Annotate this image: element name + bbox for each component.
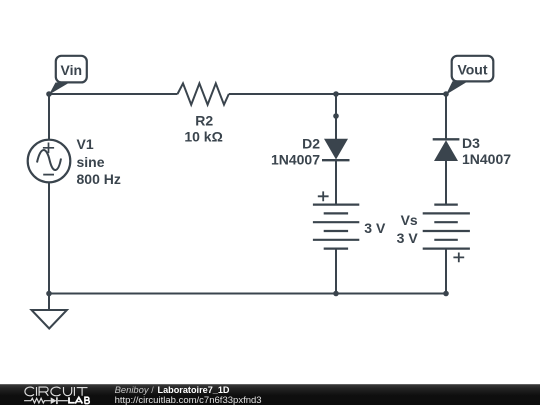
battery V2 long plate 3	[313, 221, 359, 223]
node Vin callout box	[56, 56, 87, 83]
battery Vs positive long plate 6	[423, 248, 470, 250]
wire battery V2 negative plate to ground rail	[335, 249, 337, 294]
svg-text:3 V: 3 V	[397, 230, 419, 246]
voltage source V1 minus polarity mark	[43, 174, 54, 176]
battery Vs plus polarity mark	[453, 253, 464, 263]
svg-text:Vout: Vout	[457, 62, 487, 78]
svg-text:Vin: Vin	[61, 62, 83, 78]
svg-text:R2: R2	[195, 112, 213, 128]
battery V2 plus polarity mark	[318, 191, 329, 201]
svg-text:D3: D3	[462, 135, 480, 151]
svg-text:1N4007: 1N4007	[271, 151, 320, 167]
junction dot battery V2 to rail	[333, 291, 339, 297]
svg-text:Vs: Vs	[401, 212, 418, 228]
battery Vs long plate 4	[423, 230, 470, 232]
node Vout callout box	[452, 56, 494, 82]
wire top node down to D2 junction and anode	[335, 94, 337, 140]
voltage source V1 sine symbol	[37, 150, 61, 170]
battery Vs short plate 5	[434, 239, 458, 241]
battery Vs short plate 3	[434, 221, 458, 223]
wire V1 negative terminal down to ground node	[48, 182, 50, 293]
wire Vin node down to V1 positive terminal	[48, 94, 50, 140]
svg-text:V1: V1	[77, 136, 94, 152]
svg-text:D2: D2	[302, 135, 320, 151]
logo resistor squiggle	[24, 398, 51, 403]
battery V2 positive long plate 1	[313, 204, 359, 206]
wire bottom ground rail	[49, 293, 446, 295]
footer bar	[0, 384, 540, 405]
svg-text:http://circuitlab.com/c7n6f33p: http://circuitlab.com/c7n6f33pxfnd3	[115, 395, 262, 405]
junction dot at ground node	[46, 291, 52, 297]
battery V2 negative short plate 6	[324, 248, 348, 250]
wire battery Vs positive plate to ground rail	[445, 249, 447, 294]
voltage source V1 plus polarity mark	[43, 143, 54, 154]
wire net Vin: node to R2 left terminal	[49, 93, 178, 95]
voltage source V1 circle body	[28, 140, 71, 183]
battery V2 long plate 5	[313, 239, 359, 241]
battery Vs negative short plate 1	[434, 204, 458, 206]
node Vin callout tail	[49, 83, 70, 95]
diode D2 anode triangle	[324, 139, 348, 160]
junction dot battery Vs to rail	[443, 291, 449, 297]
battery V2 short plate 4	[324, 230, 348, 232]
svg-text:sine: sine	[77, 154, 105, 170]
wire D3 anode to battery Vs negative plate	[445, 161, 447, 205]
battery V2 short plate 2	[324, 212, 348, 214]
diode D3 anode triangle	[434, 140, 458, 161]
ground stub wire	[48, 294, 50, 311]
svg-text:10 kΩ: 10 kΩ	[184, 129, 222, 145]
junction dot at Vout node	[443, 91, 449, 97]
logo CIRCUIT lettering	[25, 387, 88, 396]
junction dot on D2 branch wire	[333, 113, 339, 119]
svg-text:Beniboy: Beniboy	[115, 385, 150, 395]
diode D2 cathode bar	[322, 159, 350, 161]
svg-text:3 V: 3 V	[364, 220, 386, 236]
svg-text:1N4007: 1N4007	[462, 151, 511, 167]
wire D2 cathode to battery V2 positive plate	[335, 160, 337, 205]
node Vout callout tail	[446, 81, 468, 94]
junction dot at Vin node	[46, 91, 52, 97]
wire Vout node down to D3 cathode	[445, 94, 447, 140]
resistor R2 zigzag body	[178, 83, 229, 104]
logo LAB lettering	[69, 397, 89, 404]
logo diode symbol	[51, 397, 57, 404]
diode D3 cathode bar	[433, 138, 460, 140]
ground triangle symbol	[32, 310, 67, 329]
battery Vs long plate 2	[423, 212, 470, 214]
wire net Vout: R2 right terminal to Vout node	[229, 93, 446, 95]
svg-text:Laboratoire7_1D: Laboratoire7_1D	[158, 385, 230, 395]
junction dot top wire to D2 branch	[333, 91, 339, 97]
svg-text:800 Hz: 800 Hz	[77, 171, 121, 187]
